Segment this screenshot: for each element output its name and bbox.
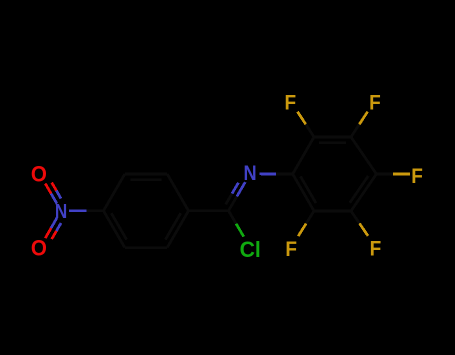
ring A inner double bond line C4-C5	[165, 213, 180, 239]
pentafluorophenyl ring B edge C5-C6	[314, 210, 351, 213]
pentafluorophenyl ring B edge C3-C4	[351, 137, 376, 174]
benzene ring A edge C1-C2	[104, 174, 125, 211]
svg-text:F: F	[284, 91, 296, 114]
nitro double bond N=O bottom, main line (red/blue)	[45, 228, 51, 238]
nitro double bond N=O top, second line (red/blue)	[52, 183, 57, 191]
bond imine N - ring B C1 (blue half / dark half)	[260, 173, 277, 176]
bond ring B C6 - F bottom-left (dark/gold)	[306, 211, 314, 224]
nitro double bond N=O bottom, second line (red/blue)	[52, 231, 57, 239]
benzene ring A edge C5-C6	[125, 246, 167, 249]
pentafluorophenyl ring B edge C4-C5	[351, 174, 376, 211]
svg-text:N: N	[243, 162, 256, 185]
pentafluorophenyl ring B edge C1-C2	[293, 137, 314, 174]
benzene ring A edge C2-C3	[125, 173, 167, 176]
pentafluorophenyl ring B edge C6-C1	[293, 174, 314, 211]
benzene ring A edge C3-C4	[167, 174, 188, 211]
bond central carbon - Cl (dark half / green half)	[229, 211, 237, 224]
ring B inner double bond line C2-C3	[319, 141, 346, 144]
svg-text:F: F	[370, 238, 382, 261]
bond ring A C4 - central carbon	[189, 209, 229, 212]
ring A inner double bond line C6-C1	[111, 213, 126, 239]
svg-text:O: O	[31, 162, 47, 187]
ring B inner double bond line C4-C5	[350, 176, 368, 203]
imine double bond C=N second line (dark/blue)	[226, 194, 232, 205]
bond ring B C2 - F top-left (dark/gold)	[306, 124, 314, 137]
ring A inner double bond line C2-C3	[131, 178, 162, 181]
imine double bond C=N main line (dark/blue)	[229, 196, 237, 210]
svg-text:F: F	[369, 91, 381, 114]
bond nitro N - ring A C1 (blue half / dark half)	[69, 209, 86, 212]
benzene ring A edge C6-C1	[104, 211, 125, 248]
nitro double bond N=O top, main line (red/blue)	[45, 184, 51, 194]
svg-text:Cl: Cl	[240, 237, 261, 262]
benzene ring A edge C4-C5	[167, 211, 188, 248]
bond ring B C3 - F top-right (dark/gold)	[351, 124, 359, 137]
ring B inner double bond line C6-C1	[301, 176, 316, 203]
pentafluorophenyl ring B edge C2-C3	[314, 136, 351, 139]
svg-text:N: N	[55, 199, 67, 222]
bond ring B C5 - F bottom-right (dark/gold)	[351, 211, 360, 223]
svg-text:F: F	[411, 165, 423, 188]
bond ring B C4 - F right (dark/gold)	[376, 173, 393, 176]
svg-text:O: O	[31, 236, 47, 261]
svg-text:F: F	[285, 238, 297, 261]
